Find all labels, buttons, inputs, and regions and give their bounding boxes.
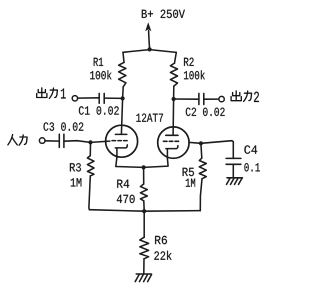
- label 入力: [8, 135, 27, 146]
- tube V1b plate: [166, 134, 178, 136]
- label C4: [244, 145, 257, 153]
- resistor R1: [119, 62, 126, 86]
- label R5: [183, 168, 194, 176]
- resistor R6: [140, 237, 149, 259]
- B+ supply arrow: [145, 22, 151, 49]
- tube V1b envelope: [158, 127, 189, 158]
- label R2: [184, 58, 194, 66]
- terminal output2: [219, 96, 224, 101]
- label 12AT7: [136, 114, 163, 122]
- terminal output1: [72, 96, 77, 101]
- tube V1a cathode: [115, 145, 127, 157]
- label 100k right: [184, 70, 205, 79]
- label 出力1: [37, 88, 58, 98]
- wire left plate lead: [121, 98, 122, 134]
- label 22k: [154, 251, 171, 260]
- resistor R3: [87, 142, 94, 176]
- node B+ junction: [148, 47, 152, 51]
- wire R5 to bottom rail corner: [200, 179, 202, 211]
- node right grid junction: [199, 141, 203, 145]
- node cathode junction: [142, 165, 146, 169]
- ground at R6: [135, 274, 151, 282]
- resistor R2: [170, 63, 177, 86]
- label R1: [94, 58, 103, 66]
- wire grid node to tube V1a grid: [91, 141, 110, 142]
- node tail junction: [142, 209, 146, 213]
- capacitor C4: [226, 158, 241, 164]
- label R3: [70, 163, 81, 171]
- wire V1b grid lead to right grid node: [189, 141, 201, 144]
- label 1 of output1: [61, 89, 66, 99]
- tube V1a grid (dashed): [112, 140, 127, 142]
- label C3 0.02: [44, 122, 84, 130]
- wire right plate lead: [172, 99, 175, 135]
- label 1M right: [186, 179, 195, 187]
- label C2 0.02: [186, 108, 225, 116]
- capacitor C1: [99, 93, 104, 103]
- resistor R5: [199, 143, 206, 179]
- tube V1a envelope: [106, 125, 138, 157]
- resistor R4: [140, 184, 147, 201]
- wire C1 to left plate node: [104, 97, 122, 99]
- label R4: [117, 180, 129, 188]
- label B+ 250V: [142, 10, 185, 18]
- wire top supply rail: [123, 50, 176, 53]
- tube V1a plate: [115, 133, 126, 135]
- tube V1b grid (dashed): [163, 140, 178, 142]
- wire input to C3: [45, 140, 59, 142]
- wire bottom rail: [89, 210, 200, 212]
- capacitor C3: [59, 134, 64, 147]
- wire R3 to bottom rail: [89, 176, 90, 210]
- wire C2 to output2 terminal: [204, 98, 219, 100]
- wire right plate node to C2: [174, 98, 199, 100]
- wire left cathode to tail node: [116, 157, 144, 167]
- label 出力2: [231, 91, 252, 102]
- node left grid junction: [88, 140, 92, 144]
- terminal input: [39, 138, 45, 144]
- label 470: [117, 195, 135, 203]
- wire output1 to C1: [78, 97, 100, 99]
- tube V1b cathode: [166, 146, 178, 159]
- wire R2 to right plate node: [173, 86, 175, 99]
- wire C3 to left grid node: [64, 141, 91, 143]
- wire tail node to R6: [143, 211, 145, 237]
- ground at C4: [227, 178, 243, 185]
- wire cathode node to R4: [143, 167, 145, 184]
- label C1 0.02: [79, 106, 119, 114]
- wire R4 to tail rail node: [143, 201, 145, 211]
- wire R1 to left plate node: [122, 87, 125, 99]
- label 0.1: [244, 163, 260, 171]
- wire R6 to ground: [143, 259, 145, 273]
- wire C4 to ground: [232, 164, 234, 177]
- wire right cathode to tail node: [144, 158, 169, 167]
- label 1M left: [71, 178, 82, 186]
- node right plate junction: [172, 97, 176, 101]
- label R6: [155, 236, 167, 244]
- wire right grid node to C4: [201, 141, 233, 159]
- wire from rail to R1: [123, 52, 124, 62]
- capacitor C2: [199, 93, 204, 104]
- label 100k left: [90, 70, 111, 79]
- wire from rail to R2: [175, 52, 177, 63]
- label 2 of output2: [254, 92, 259, 102]
- node left plate junction: [121, 96, 125, 100]
